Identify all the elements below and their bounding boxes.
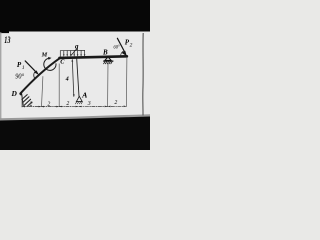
distributed load q band: [60, 50, 84, 57]
extension line from C: [58, 64, 60, 107]
pin triangle A: [76, 96, 82, 101]
support B ground: [104, 60, 114, 62]
svg-text:2: 2: [47, 101, 50, 107]
angle arc at P2: [121, 51, 124, 57]
extension line from B: [107, 61, 109, 106]
left page border: [0, 32, 2, 119]
dimension chain line: [22, 105, 127, 107]
svg-text:60°: 60°: [114, 44, 121, 51]
svg-text:B: B: [102, 49, 108, 57]
support B ground hatching: [104, 61, 113, 64]
svg-text:D: D: [11, 89, 18, 98]
svg-text:2: 2: [66, 101, 69, 107]
moment M arc: [44, 58, 56, 70]
angle arc at P1: [34, 71, 36, 78]
pin support D hatching: [22, 95, 32, 107]
svg-text:M: M: [41, 51, 48, 58]
wire beam C to E horizontal: [60, 56, 127, 58]
dimension arrowheads: [22, 106, 126, 108]
rod support A: [77, 59, 79, 97]
svg-text:1: 1: [22, 65, 25, 71]
extension line mid tick: [42, 77, 43, 107]
svg-text:90°: 90°: [15, 73, 24, 81]
wire beam D-C-E: [20, 58, 60, 94]
support A ground hatching: [75, 102, 82, 104]
svg-text:A: A: [81, 90, 87, 99]
svg-text:13: 13: [4, 36, 10, 46]
svg-text:4: 4: [65, 75, 69, 82]
roller support B triangle: [105, 57, 112, 61]
svg-text:2: 2: [30, 102, 33, 108]
svg-text:2: 2: [114, 100, 117, 106]
extension line from beam end: [125, 57, 128, 106]
extension line from D: [21, 97, 23, 107]
pin support D pivot blob: [20, 93, 23, 96]
bottom black bar: [0, 115, 150, 150]
force P1 arrow: [25, 61, 37, 73]
top black bar: [0, 0, 150, 32]
right page border: [142, 33, 144, 116]
paper background: [0, 0, 150, 150]
distributed load arrowheads: [63, 54, 85, 56]
vertical dimension 4: [72, 60, 74, 97]
svg-text:3: 3: [87, 101, 91, 107]
svg-text:2: 2: [130, 42, 133, 48]
force P2 arrow: [117, 38, 124, 51]
